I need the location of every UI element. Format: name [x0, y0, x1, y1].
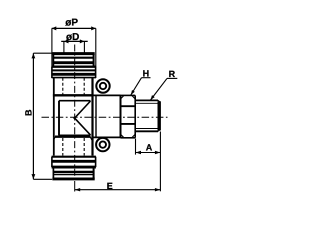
svg-text:øP: øP — [65, 18, 78, 29]
svg-text:R: R — [169, 69, 176, 79]
svg-text:øD: øD — [66, 32, 79, 43]
svg-text:B: B — [24, 109, 34, 116]
svg-text:H: H — [143, 68, 150, 78]
svg-text:E: E — [107, 181, 113, 191]
svg-text:A: A — [146, 143, 153, 153]
